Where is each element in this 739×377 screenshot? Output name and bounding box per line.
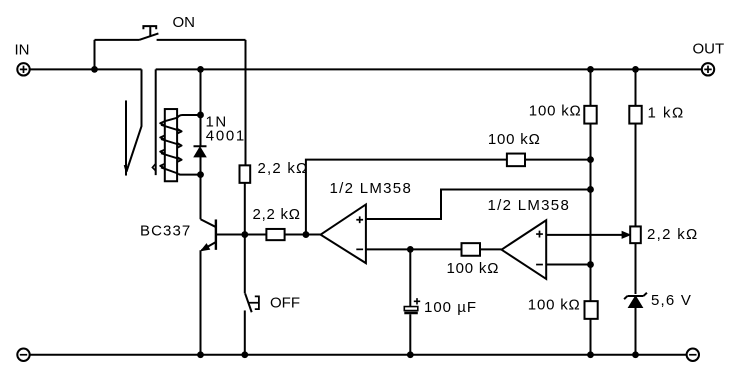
resistor R3 100k feedback bbox=[507, 154, 525, 167]
node rail/590 bbox=[587, 66, 594, 73]
wire top rail right segment to OUT bbox=[156, 68, 702, 70]
zener diode Z1 5,6V bbox=[624, 293, 647, 299]
node rail/635 bbox=[632, 66, 639, 73]
node junction IN/ON branch bbox=[91, 66, 98, 73]
node coil bottom bbox=[197, 171, 204, 178]
svg-text:100 kΩ: 100 kΩ bbox=[488, 131, 541, 148]
terminal OUT- bottom right bbox=[687, 349, 699, 361]
svg-text:1 kΩ: 1 kΩ bbox=[648, 105, 685, 122]
wire ON branch up bbox=[94, 40, 96, 69]
svg-text:100 kΩ: 100 kΩ bbox=[528, 297, 581, 314]
wire feedback up from output node bbox=[306, 160, 507, 235]
wire R3 to mid vertical bbox=[525, 159, 591, 161]
wire R4 to op-amp2 output bbox=[480, 248, 502, 250]
wire OFF to bottom rail bbox=[244, 310, 246, 354]
relay contact fixed right (to OUT rail) bbox=[155, 69, 157, 175]
capacitor C1 100uF top plate bbox=[404, 307, 418, 311]
wire base node to OFF bbox=[244, 235, 246, 294]
resistor R7 1k bbox=[629, 106, 641, 124]
wire bottom rail bbox=[30, 354, 687, 356]
capacitor C1 bottom plate bbox=[404, 312, 418, 315]
resistor R2 2,2k horizontal bbox=[266, 229, 284, 240]
terminal IN- bottom left bbox=[17, 349, 29, 361]
wire cap to bottom rail bbox=[409, 314, 411, 355]
node rail/diode bbox=[197, 66, 204, 73]
op-amp U1A 1/2 LM358 bbox=[321, 204, 366, 263]
node emitter/bottom rail bbox=[197, 351, 204, 358]
resistor R5 100k top bbox=[584, 106, 596, 124]
wire R1 to base node bbox=[244, 183, 246, 235]
node op-amp2 -/vert bbox=[587, 261, 594, 268]
node feedback/vert bbox=[587, 156, 594, 163]
svg-text:100 µF: 100 µF bbox=[424, 299, 477, 316]
switch S2 OFF plunger bbox=[248, 296, 259, 309]
svg-text:4001: 4001 bbox=[206, 127, 246, 144]
op-amp U1B 1/2 LM358 bbox=[502, 220, 547, 279]
node op-amp1 output bbox=[303, 231, 310, 238]
svg-text:2,2 kΩ: 2,2 kΩ bbox=[253, 206, 301, 223]
relay contact blade arrowhead bbox=[125, 164, 129, 172]
resistor R6 100k bottom bbox=[585, 301, 598, 319]
node 590/bottom rail bbox=[587, 351, 594, 358]
node coil top bbox=[197, 112, 204, 119]
wire right vertical x=635 bbox=[635, 69, 637, 354]
wire coil top to diode node bbox=[177, 115, 200, 118]
pot wiper arrowhead bbox=[622, 232, 630, 239]
wire op-amp1 - input bbox=[366, 248, 462, 250]
terminal OUT+ bbox=[693, 40, 725, 75]
relay K1 coil body bbox=[165, 109, 177, 181]
wire op-amp2 - input bbox=[546, 264, 590, 266]
potentiometer P1 2,2k bbox=[630, 226, 641, 243]
switch S2 OFF blade bbox=[245, 293, 252, 312]
terminal IN+ bbox=[15, 41, 30, 75]
svg-text:IN: IN bbox=[15, 41, 30, 58]
wire ON branch horizontal left bbox=[95, 39, 140, 41]
switch S1 ON blade bbox=[140, 33, 159, 39]
wire top rail left segment bbox=[30, 68, 142, 70]
wire mid vertical x=590 bbox=[590, 69, 592, 354]
wire diode branch vertical bbox=[200, 69, 202, 219]
wire base node to R2 bbox=[245, 234, 267, 236]
wire base bbox=[216, 234, 245, 236]
svg-text:2,2 kΩ: 2,2 kΩ bbox=[647, 226, 699, 243]
wire ON branch horizontal right bbox=[157, 39, 246, 41]
wire cap branch bbox=[409, 249, 411, 306]
svg-text:100 kΩ: 100 kΩ bbox=[529, 102, 582, 119]
capacitor plus mark bbox=[414, 298, 420, 304]
svg-text:ON: ON bbox=[173, 14, 196, 31]
wire coil bottom to diode node bbox=[178, 174, 200, 175]
svg-text:1/2 LM358: 1/2 LM358 bbox=[488, 197, 571, 214]
svg-text:OFF: OFF bbox=[270, 295, 300, 312]
node cap junction bbox=[407, 246, 414, 253]
node +input/vert bbox=[587, 186, 594, 193]
node OFF/bottom rail bbox=[241, 351, 248, 358]
switch S1 ON plunger bbox=[143, 26, 156, 36]
transistor Q1 BC337 bbox=[201, 219, 216, 250]
resistor R1 2,2k vertical bbox=[240, 165, 251, 183]
resistor R4 100k bbox=[462, 243, 481, 256]
diode D1 1N4001 bbox=[194, 145, 207, 147]
svg-text:100 kΩ: 100 kΩ bbox=[447, 260, 500, 277]
wire op-amp1 + input bbox=[366, 189, 591, 219]
relay contact chevron bbox=[152, 164, 155, 171]
relay contact fixed left bbox=[125, 100, 127, 175]
svg-text:5,6 V: 5,6 V bbox=[651, 292, 692, 309]
svg-text:OUT: OUT bbox=[693, 40, 725, 57]
wire op-amp2 + input to pot wiper bbox=[546, 234, 623, 236]
node base junction bbox=[241, 231, 248, 238]
svg-text:BC337: BC337 bbox=[140, 223, 191, 240]
relay K1 contact moving blade bbox=[126, 69, 141, 171]
svg-text:2,2 kΩ: 2,2 kΩ bbox=[258, 160, 309, 177]
wire emitter down bbox=[200, 250, 202, 355]
wire ON branch down to R base resistor bbox=[245, 40, 247, 165]
node 635/bottom rail bbox=[632, 351, 639, 358]
node cap/bottom rail bbox=[407, 351, 414, 358]
wire R2 to op-amp output node bbox=[285, 234, 321, 236]
relay coil winding bbox=[160, 118, 181, 174]
svg-text:1/2 LM358: 1/2 LM358 bbox=[330, 180, 413, 197]
